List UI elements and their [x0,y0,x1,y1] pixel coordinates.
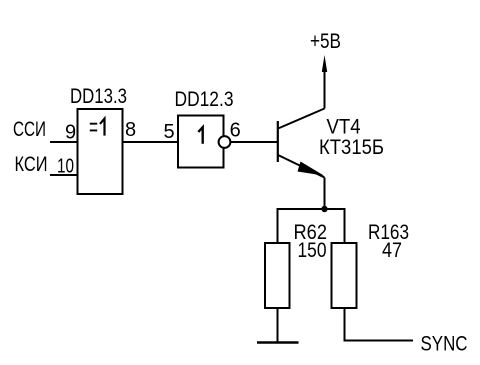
inverter gate DD12.3 body [178,116,224,168]
svg-text:8: 8 [125,119,136,141]
resistor R163 body [332,243,357,308]
svg-text:КСИ: КСИ [15,153,48,176]
wire to SYNC [344,340,414,342]
svg-text:SYNC: SYNC [421,332,468,356]
svg-text:5: 5 [163,121,174,143]
svg-text:ССИ: ССИ [13,118,46,141]
power arrow to +5V [322,55,327,72]
resistor R62 body [265,243,290,308]
svg-text:+5В: +5В [310,30,341,53]
svg-text:КТ315Б: КТ315Б [319,136,384,159]
svg-text:6: 6 [230,120,241,142]
wire rail to R62 [277,208,279,242]
gate function label =1 [90,124,97,131]
wire rail to R163 [344,208,346,242]
wire node rail [278,208,345,210]
svg-text:10: 10 [57,156,74,178]
svg-text:DD13.3: DD13.3 [70,85,127,108]
emitter arrow of VT4 [298,162,325,176]
transistor VT4 collector diagonal [278,109,325,129]
svg-text:47: 47 [382,239,402,262]
ground bar [257,341,299,344]
wire pin 6 to base of VT4 [231,141,277,143]
wire pin 8 to pin 5 [123,141,178,143]
svg-text:DD12.3: DD12.3 [175,88,234,111]
XOR gate U DD13.3 body [78,109,123,194]
transistor VT4 base bar [277,121,279,162]
wire emitter down to node [324,178,326,210]
svg-text:9: 9 [65,122,76,144]
wire collector to +5V [324,70,326,109]
inversion bubble on output pin 6 [219,136,231,148]
wire input pin 9 [50,141,77,143]
transistor VT4 emitter diagonal [278,155,325,178]
junction node dot [321,206,327,212]
gate function label 1 [198,127,202,144]
wire input pin 10 [50,174,77,176]
wire R62 to ground [277,309,279,342]
svg-text:150: 150 [298,239,327,262]
wire R163 down [344,309,346,341]
